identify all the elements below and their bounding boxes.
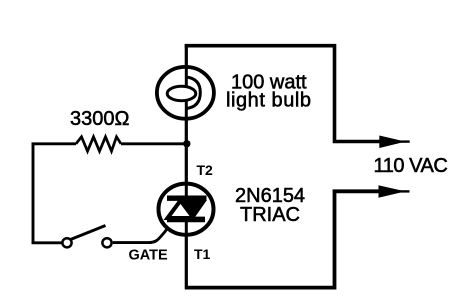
- svg-text:3300Ω: 3300Ω: [70, 108, 129, 130]
- svg-text:T2: T2: [197, 162, 214, 178]
- svg-text:110 VAC: 110 VAC: [374, 155, 448, 177]
- svg-text:GATE: GATE: [129, 247, 169, 263]
- svg-text:light bulb: light bulb: [226, 90, 312, 112]
- svg-text:TRIAC: TRIAC: [240, 204, 300, 226]
- svg-text:T1: T1: [194, 246, 211, 262]
